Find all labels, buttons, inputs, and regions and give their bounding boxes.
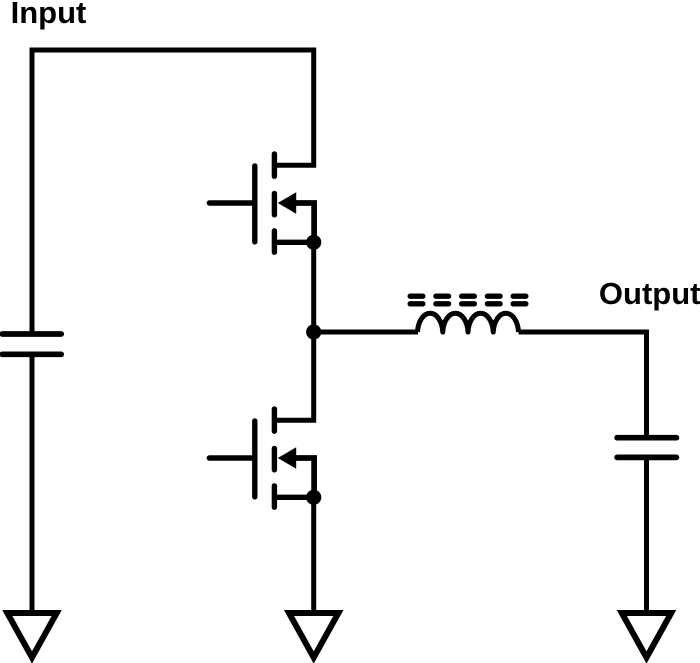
inductor L1 coil	[418, 313, 519, 332]
transistor Q1 (high-side NMOS)	[209, 154, 314, 252]
Q2 channel segment middle	[272, 448, 277, 469]
transistor Q2 (low-side NMOS)	[209, 409, 314, 507]
Q1 source lead	[274, 240, 313, 245]
Q1 channel segment top	[272, 154, 277, 176]
Q1 gate plate	[252, 166, 257, 242]
Q2 body-source wire	[293, 458, 314, 497]
Q2 gate plate	[252, 421, 257, 497]
ground: output	[622, 613, 671, 658]
svg-text:Output: Output	[599, 276, 700, 311]
junction dot: Q1 source	[306, 235, 321, 250]
capacitor C1 (input)	[2, 334, 61, 354]
junction dot: switch node	[306, 324, 321, 339]
inductor L1 core bars	[410, 296, 526, 304]
svg-text:Input: Input	[11, 0, 87, 30]
Q2 body arrow	[278, 447, 296, 468]
capacitor C2 (output)	[617, 438, 676, 458]
Q1 channel segment middle	[272, 193, 277, 214]
wire: Q2 source to ground	[311, 497, 316, 612]
ground: switch leg	[289, 613, 338, 658]
wire: input cap bottom to ground	[30, 354, 35, 612]
wire: output cap bottom to ground	[644, 457, 649, 612]
wire: left bus from input cap up, across top, down to Q1 drain	[32, 50, 314, 336]
Q1 gate lead	[209, 200, 255, 205]
Q2 channel segment bottom	[272, 486, 277, 507]
wire: switch node to inductor	[314, 330, 418, 335]
Q2 source lead	[274, 495, 313, 500]
wire: Q1 source down through switch node to Q2 drain	[276, 242, 314, 420]
junction dot: Q2 source	[306, 490, 321, 505]
Q2 gate lead	[209, 455, 255, 460]
ground: input	[7, 613, 56, 658]
Q1 body arrow	[278, 192, 296, 213]
wire: inductor to output bus and down to output cap	[519, 332, 647, 438]
Q2 channel segment top	[272, 409, 277, 431]
Q1 channel segment bottom	[272, 231, 277, 252]
Q1 body-source wire	[293, 203, 314, 242]
